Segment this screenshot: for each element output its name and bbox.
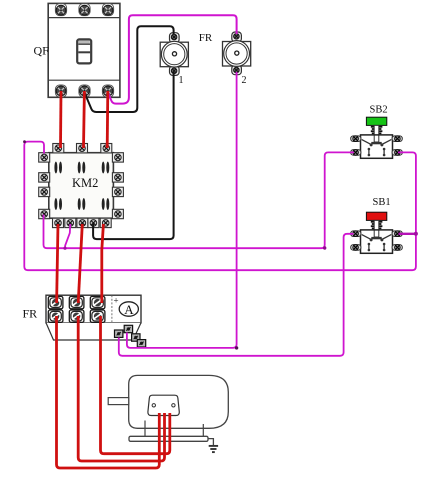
FR NC small terminal a <box>124 325 132 332</box>
FR NC small terminal b <box>115 330 123 337</box>
KM2 top terminals <box>53 144 64 153</box>
junction coil node <box>63 247 66 250</box>
wire L2 red QF to KM2 <box>82 91 86 148</box>
FR terminals row1 <box>48 296 63 308</box>
svg-text:SB2: SB2 <box>370 105 388 116</box>
motor leg right <box>202 424 204 437</box>
svg-text:+: + <box>114 296 119 306</box>
wire magenta FR NC to SB1 left <box>119 234 354 356</box>
svg-text:SB1: SB1 <box>373 197 391 208</box>
fuse FU2 <box>223 32 251 75</box>
thermal relay FR body <box>46 295 141 323</box>
wire magenta KM2 coil node to SB2 left <box>44 152 355 248</box>
wire red KM2 to FR phase2 <box>78 224 82 303</box>
wire red FR to motor W <box>101 316 170 454</box>
wire red FR to motor V <box>78 316 164 461</box>
motor terminal box <box>148 395 179 415</box>
svg-text:A: A <box>124 302 134 317</box>
wire black QF to FU1 top <box>85 26 174 112</box>
FR NC small terminal d <box>137 340 145 347</box>
ammeter A <box>119 302 138 316</box>
FR trapezoid base <box>46 323 141 340</box>
FR NC small terminal c <box>132 334 140 341</box>
wire magenta SB1 right link <box>399 233 416 235</box>
wire magenta FU2 bottom to FR NC terminal <box>127 72 237 348</box>
motor box screw right <box>172 404 175 407</box>
wire red KM2 to FR phase3 <box>102 224 104 303</box>
junction corner FU2 bottom <box>235 346 238 349</box>
wire magenta QF to FU2 top <box>108 15 237 103</box>
junction SB1 right <box>414 232 418 236</box>
wire L1 red QF to KM2 <box>59 91 62 148</box>
motor body <box>129 375 229 428</box>
svg-text:QF: QF <box>34 44 50 58</box>
wire L3 red QF to KM2 <box>106 91 109 148</box>
QF terminal screws <box>55 4 66 16</box>
wire red KM2 to FR phase1 <box>57 224 58 303</box>
KM2 right side terminals <box>112 153 123 162</box>
KM2 left side terminals <box>39 153 50 162</box>
svg-text:2: 2 <box>242 75 247 86</box>
pushbutton SB1 <box>351 212 403 253</box>
pushbutton SB2 <box>351 117 403 158</box>
motor box screw left <box>152 404 155 407</box>
svg-text:FR: FR <box>199 32 213 44</box>
wire magenta KM2 aux to SB2 right (long loop) <box>24 142 416 271</box>
FR divider <box>111 295 113 323</box>
wire red FR to motor U <box>57 316 160 468</box>
FR terminals row2 <box>48 310 63 322</box>
QF toggle switch <box>77 39 91 63</box>
wire magenta KM2 T2 to coil node <box>65 224 70 248</box>
ground wire <box>208 439 213 446</box>
motor base plate <box>129 436 208 441</box>
fuse FU1 <box>160 33 188 76</box>
junction aux corner <box>23 140 26 143</box>
motor shaft <box>108 398 129 405</box>
wire black FU1 bottom to KM2 coil A1 <box>93 72 174 239</box>
contactor KM2 body <box>49 153 114 219</box>
motor leg left <box>144 421 146 437</box>
svg-text:KM2: KM2 <box>72 176 98 190</box>
KM2 bottom terminals <box>53 218 64 227</box>
svg-text:FR: FR <box>23 307 38 321</box>
junction corner SB2 left riser <box>323 246 326 249</box>
svg-text:1: 1 <box>179 75 184 86</box>
breaker QF body <box>48 3 120 97</box>
ground symbol <box>209 446 218 452</box>
